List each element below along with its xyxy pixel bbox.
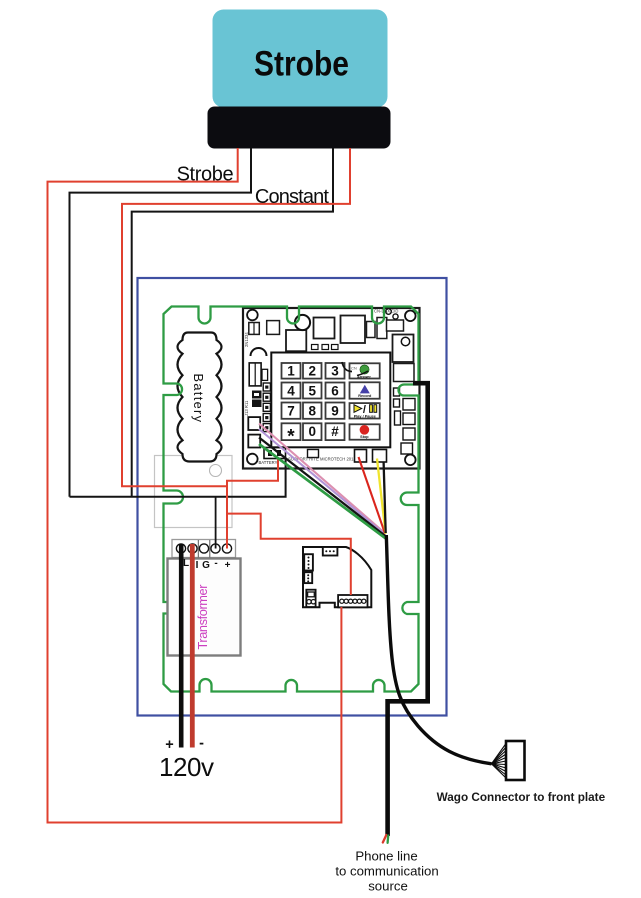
key 9: [326, 403, 345, 419]
key 1: [282, 363, 301, 379]
pcb small components top row: [249, 316, 414, 382]
bottom wire connectors: [355, 450, 367, 463]
key answer: [350, 363, 380, 378]
wire black strobe to board: [70, 148, 252, 497]
svg-text:120v: 120v: [159, 752, 214, 782]
svg-text:Constant: Constant: [255, 186, 329, 208]
svg-text:2: 2: [308, 364, 316, 379]
svg-text:Wago Connector to front plate: Wago Connector to front plate: [437, 790, 606, 804]
wire black horizontal to battery connector: [70, 459, 286, 497]
svg-text:8: 8: [308, 403, 316, 418]
svg-text:Strobe: Strobe: [254, 45, 349, 84]
svg-text:6: 6: [331, 383, 339, 398]
svg-text:Battery: Battery: [191, 374, 206, 423]
strobe lamp body: [213, 10, 388, 108]
svg-text:4: 4: [287, 383, 295, 398]
component circle L1: [295, 315, 310, 330]
battery: [178, 333, 222, 462]
svg-text:source: source: [368, 879, 408, 894]
stop icon: [360, 425, 370, 435]
svg-text:1: 1: [287, 364, 295, 379]
svg-text:G: G: [202, 560, 210, 571]
wire black to terminal: [215, 497, 217, 549]
play pause icon: [354, 405, 362, 413]
key stop: [350, 424, 380, 439]
white box below battery: [155, 456, 233, 528]
svg-text:-: -: [214, 558, 217, 569]
left column components: [249, 363, 261, 386]
main pcb: [243, 308, 420, 469]
jack pcb bottom-left component: [306, 590, 315, 607]
key hash: [326, 423, 345, 440]
enclosure (blue box): [138, 278, 447, 716]
svg-text:3: 3: [331, 364, 339, 379]
jack pcb 6 pin connector: [338, 595, 367, 607]
small circles top right: [386, 309, 392, 315]
column of five small squares: [263, 383, 270, 432]
key 4: [282, 383, 301, 399]
wire red strobe long left loop: [48, 148, 342, 823]
key 5: [303, 383, 322, 399]
svg-text:J13 R11: J13 R11: [244, 400, 249, 416]
key star: [282, 423, 301, 440]
terminal labels: [183, 558, 231, 571]
svg-text:Play / Pause: Play / Pause: [354, 414, 376, 418]
fan wire red: [359, 457, 386, 534]
jack pcb left connector 3pin: [304, 572, 312, 583]
svg-text:9: 9: [331, 403, 339, 418]
svg-text:Stop: Stop: [360, 435, 369, 439]
wire origin connector boxes: [248, 417, 260, 430]
thick 120v red wire: [190, 544, 195, 748]
svg-text:Strobe: Strobe: [177, 163, 234, 185]
pcb hole top-left: [247, 310, 258, 321]
fan wire pink: [259, 424, 385, 534]
key 2: [303, 363, 322, 379]
wire red constant: [122, 148, 350, 486]
svg-text:+: +: [165, 737, 173, 753]
key 6: [326, 383, 345, 399]
svg-text:L: L: [183, 558, 189, 569]
key 3: [326, 363, 345, 379]
svg-text:5: 5: [308, 383, 316, 398]
key 8: [303, 403, 322, 419]
keypad panel: [271, 353, 390, 448]
wire arc from key3 to answer key: [342, 362, 352, 372]
pcb hole top-right: [405, 311, 416, 322]
svg-text:Transformer: Transformer: [195, 584, 210, 650]
wire black constant to board: [132, 148, 333, 496]
wire red battery connector down to terminal: [227, 459, 278, 549]
key 7: [282, 403, 301, 419]
svg-text:I: I: [196, 560, 199, 571]
green backboard outline: [164, 307, 419, 692]
terminal strip: [172, 540, 236, 558]
thick 120v black wire: [179, 544, 184, 748]
svg-text:Record: Record: [358, 394, 372, 398]
fan wire yellow: [377, 459, 386, 534]
svg-text:CN: CN: [351, 366, 357, 371]
svg-text:7: 7: [287, 403, 295, 418]
key play: [350, 403, 380, 418]
pcb hole bottom-left: [247, 454, 258, 465]
svg-text:0: 0: [308, 424, 316, 439]
combined cable to wago connector: [386, 535, 491, 764]
thick wire from pcb right to phone line: [388, 383, 428, 836]
fan wire green: [259, 444, 386, 539]
svg-text:Phone line: Phone line: [355, 849, 417, 864]
key record: [350, 382, 380, 398]
svg-text:*: *: [287, 427, 295, 448]
label phone line: [335, 849, 438, 894]
svg-text:+: +: [225, 560, 231, 571]
svg-text:CN-DBX CID: CN-DBX CID: [374, 309, 398, 314]
svg-text:Answer: Answer: [357, 375, 371, 379]
strobe lamp base: [208, 107, 391, 149]
wire red branch to jack pcb: [227, 514, 351, 595]
jack pcb top connector: [323, 547, 338, 556]
pcb hole bottom-right: [405, 455, 416, 466]
fan wire black vertical: [384, 462, 386, 533]
wago fan wires: [492, 744, 507, 779]
wago connector box: [506, 741, 525, 780]
key 0: [303, 423, 322, 440]
bottom mid connector: [308, 450, 319, 458]
small dashes above keypad: [312, 345, 319, 350]
transformer: [168, 559, 241, 656]
phone line tip strands: [383, 835, 387, 843]
circle in white box: [210, 465, 222, 477]
small phone jack pcb: [303, 547, 371, 607]
svg-text:#: #: [331, 424, 339, 439]
jack pcb left connector 4pin: [304, 554, 313, 570]
fan wire violet: [259, 429, 385, 535]
arc component: [251, 348, 267, 356]
record icon: [360, 385, 370, 394]
right column small components: [394, 388, 416, 454]
svg-text:BATTERY: BATTERY: [259, 460, 278, 465]
battery connector: [264, 448, 286, 459]
svg-text:to communication: to communication: [335, 864, 438, 879]
svg-text:-: -: [199, 736, 204, 752]
fan wire black: [259, 438, 386, 537]
